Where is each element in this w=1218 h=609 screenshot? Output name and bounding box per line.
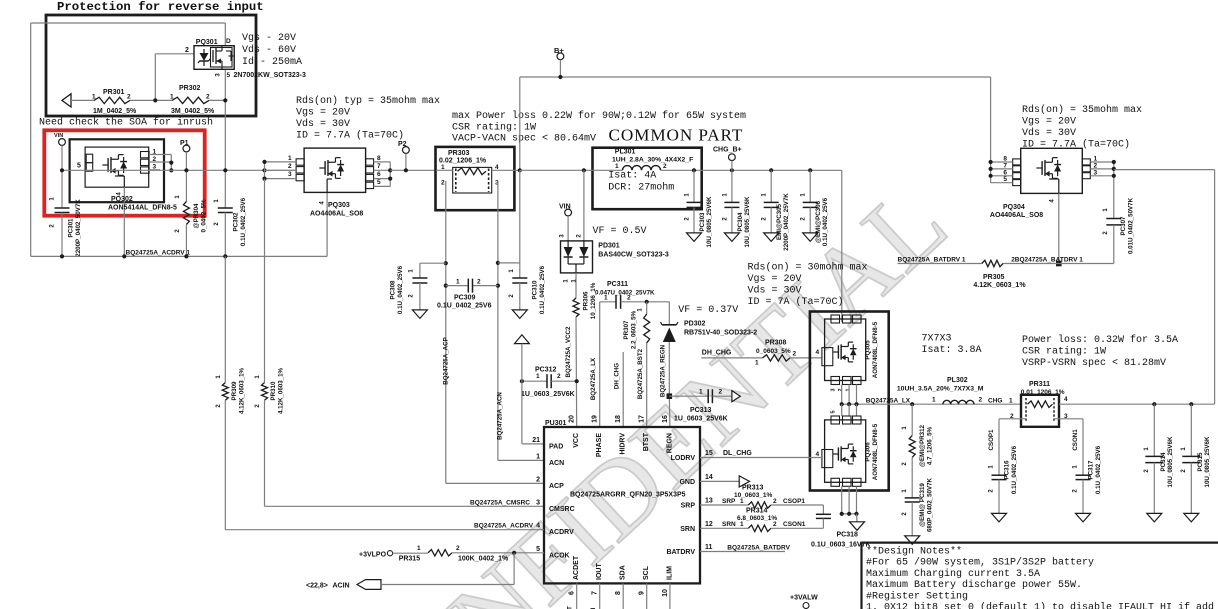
label VIN [559, 204, 571, 211]
svg-text:BQ24725A_BST2: BQ24725A_BST2 [637, 348, 644, 399]
svg-text:Vgs - 20V: Vgs - 20V [242, 33, 296, 44]
resistor PR313 [748, 502, 771, 508]
label BQ24725A_ACN [497, 392, 504, 440]
capacitor PC301 [55, 170, 70, 256]
labels PC316 [989, 445, 1019, 494]
svg-text:Id - 250mA: Id - 250mA [242, 56, 302, 68]
labels PC304 [722, 193, 751, 248]
svg-text:1. 0X12 bit8 set 0 (default 1): 1. 0X12 bit8 set 0 (default 1) to disabl… [866, 602, 1214, 609]
diode PD301 [561, 241, 593, 273]
svg-text:3: 3 [831, 388, 837, 391]
svg-text:680P_0402_50V7K: 680P_0402_50V7K [927, 477, 934, 532]
title Protection for reverse input [57, 0, 264, 14]
svg-text:0_0603_5%: 0_0603_5% [756, 348, 791, 355]
wire BST2 to pin17 [646, 343, 648, 427]
svg-text:ACIN: ACIN [333, 583, 350, 590]
svg-text:Vds = 30V: Vds = 30V [748, 285, 802, 297]
inductor box PL301 [593, 148, 702, 210]
svg-text:19: 19 [592, 415, 599, 423]
junction dots LX [840, 402, 915, 406]
svg-text:ACN: ACN [549, 460, 564, 467]
pin labels PQ305 bottom [831, 388, 852, 391]
wire PR302 leads [155, 99, 225, 101]
svg-text:4.7_1206_5%: 4.7_1206_5% [927, 426, 934, 465]
svg-text:RB751V-40_SOD323-2: RB751V-40_SOD323-2 [684, 330, 757, 337]
label PR301 [92, 89, 137, 115]
svg-text:1: 1 [417, 545, 421, 552]
capacitor PC317 [1076, 475, 1091, 513]
junction dots main rail left [60, 168, 267, 172]
junction dots sense lines [444, 261, 500, 288]
capacitor PC307 [1106, 179, 1121, 264]
wire rail to PL301 [520, 169, 623, 171]
svg-text:PC308: PC308 [390, 280, 397, 299]
wire ACIN [381, 553, 514, 585]
junction dots output caps [692, 168, 812, 172]
label +3VLPO [359, 552, 387, 559]
label CHG_B+ [713, 147, 742, 154]
wire SRP stub [700, 504, 748, 506]
svg-text:1UH_2.8A_30%_4X4X2_F: 1UH_2.8A_30%_4X4X2_F [612, 157, 693, 164]
svg-text:3: 3 [153, 164, 157, 171]
label PQ301 [196, 39, 218, 46]
svg-text:EMI@PC305: EMI@PC305 [776, 203, 783, 240]
current sense box PR311 [1021, 395, 1059, 427]
svg-text:4: 4 [536, 523, 540, 530]
svg-text:PD301: PD301 [598, 243, 620, 250]
text CSR block [452, 110, 746, 145]
label P1 [180, 140, 189, 147]
wire LX rail [842, 403, 1021, 405]
wire PQ301 drain stub [224, 23, 226, 46]
wire down to PQ305 drain [841, 170, 843, 322]
junction dots CHG rail [1152, 402, 1193, 406]
junction dot ACOK [512, 551, 516, 555]
svg-text:PQ303: PQ303 [328, 202, 350, 209]
svg-text:Vgs = 20V: Vgs = 20V [748, 274, 802, 285]
wire PQ304 pin4 down [1058, 193, 1060, 263]
wire PC309 leads [446, 285, 498, 287]
svg-text:Vgs = 20V: Vgs = 20V [1022, 117, 1076, 128]
svg-text:PR313: PR313 [742, 485, 764, 492]
svg-text:Isat: 4A: Isat: 4A [608, 171, 656, 182]
svg-text:11: 11 [705, 544, 713, 551]
wire PC311 to PD302 corner [647, 302, 670, 325]
wire PR308 to PQ305 gate [790, 357, 822, 359]
svg-text:5: 5 [227, 72, 231, 79]
labels PC301 [50, 197, 83, 257]
svg-text:2: 2 [288, 163, 292, 170]
svg-text:BQ24725A_ACDRV 1: BQ24725A_ACDRV 1 [126, 249, 191, 256]
svg-text:ACDRV: ACDRV [549, 529, 574, 536]
capacitor PC303 [687, 170, 702, 233]
svg-text:BAS40CW_SOT323-3: BAS40CW_SOT323-3 [598, 252, 669, 259]
svg-text:ILIM: ILIM [666, 566, 673, 580]
wire ACDRV to pin4 [225, 400, 544, 529]
pin labels PL301 [615, 163, 667, 170]
svg-text:2: 2 [441, 180, 445, 187]
label BQ24725A_BATDRV pin11 [727, 545, 790, 552]
wire PQ304 to right edge [1114, 169, 1215, 171]
net arrow left [62, 94, 71, 107]
svg-text:4.12K_0603_1%: 4.12K_0603_1% [278, 367, 285, 414]
svg-text:2: 2 [663, 163, 667, 170]
net arrow PC313 [732, 391, 740, 402]
svg-text:0.01U_0402_50V7K: 0.01U_0402_50V7K [1128, 197, 1135, 254]
testpoint P2 [398, 141, 409, 172]
pin labels PU301 top [569, 415, 674, 457]
svg-text:0.1U_0402_25V6: 0.1U_0402_25V6 [1011, 445, 1018, 494]
wire PQ304 right pins [1090, 162, 1114, 179]
svg-text:8: 8 [377, 155, 381, 162]
capacitor PC305 [764, 170, 779, 233]
resistor PR312 [909, 404, 915, 457]
svg-text:VSRP-VSRN spec < 81.28mV: VSRP-VSRN spec < 81.28mV [1022, 358, 1166, 369]
svg-text:10U_0805_25V6K: 10U_0805_25V6K [706, 196, 713, 247]
diode PD302 [661, 322, 679, 342]
svg-text:Rds(on) = 35mohm max: Rds(on) = 35mohm max [1022, 104, 1142, 116]
text design notes [866, 546, 1214, 609]
labels PC309 [437, 279, 492, 310]
svg-text:PR309: PR309 [231, 381, 238, 400]
svg-text:DH_CHG: DH_CHG [614, 363, 621, 389]
labels SRP [722, 498, 805, 505]
wire main input rail [62, 169, 296, 171]
labels PR312 [902, 424, 934, 467]
label CSOP1 right [988, 429, 995, 451]
svg-text:5: 5 [536, 546, 540, 553]
net arrow B+ up [515, 335, 530, 344]
svg-text:REGN: REGN [666, 433, 673, 453]
svg-text:1M_0402_5%: 1M_0402_5% [93, 108, 137, 115]
inductor PL301 [623, 166, 661, 171]
svg-text:1: 1 [740, 521, 744, 528]
svg-text:PR311: PR311 [1029, 381, 1050, 388]
svg-text:BATDRV: BATDRV [666, 549, 695, 556]
svg-text:VF = 0.37V: VF = 0.37V [678, 305, 738, 316]
svg-text:1U_0603_25V6K: 1U_0603_25V6K [521, 391, 575, 398]
labels PR304 [175, 195, 208, 233]
svg-text:10U_0805_25V6K: 10U_0805_25V6K [744, 196, 751, 247]
transistor PQ304 [1013, 148, 1091, 193]
svg-text:PL302: PL302 [947, 377, 968, 384]
capacitor PC302 [218, 208, 233, 213]
svg-text:7: 7 [592, 591, 599, 595]
svg-text:COMMON PART: COMMON PART [609, 126, 744, 145]
svg-text:18: 18 [615, 415, 622, 423]
svg-text:PQ305: PQ305 [865, 340, 872, 360]
pin label PQ306 5 [831, 410, 837, 413]
junction dot B+ rail [518, 168, 522, 172]
svg-text:PC307: PC307 [1120, 216, 1127, 235]
svg-text:PHASE: PHASE [596, 433, 603, 457]
svg-text:10_1206_1%: 10_1206_1% [590, 282, 597, 319]
labels PC308 [390, 265, 415, 314]
resistor PR305 [982, 260, 1003, 266]
svg-text:BQ24725A_LX: BQ24725A_LX [590, 357, 597, 400]
svg-text:PC313: PC313 [690, 407, 712, 414]
ground PC303 [687, 233, 702, 242]
svg-text:0.1U_0402_25V6: 0.1U_0402_25V6 [437, 303, 492, 310]
svg-text:17: 17 [639, 415, 646, 423]
testpoint VIN [565, 209, 572, 241]
transistor PQ306 [822, 416, 866, 486]
svg-text:SCL: SCL [643, 565, 650, 580]
svg-text:IOUT: IOUT [596, 563, 603, 580]
label PC311 [595, 281, 655, 297]
svg-text:AO4406AL_SO8: AO4406AL_SO8 [990, 212, 1043, 219]
capacitor PC316 [992, 475, 1007, 513]
junction dots ACDRV rail [60, 254, 228, 258]
pin labels PQ302 [77, 149, 157, 196]
ground PC314 [1147, 513, 1162, 522]
svg-text:20: 20 [569, 415, 576, 423]
pin labels PU301 left [532, 437, 574, 559]
svg-text:#Register Setting: #Register Setting [866, 590, 968, 602]
transistor PQ303 [296, 148, 374, 192]
svg-text:AON7408L_DFN8-5: AON7408L_DFN8-5 [872, 321, 879, 378]
svg-text:BQ24725A_BATDRV 1: BQ24725A_BATDRV 1 [898, 257, 966, 264]
ground PC310 [512, 310, 527, 319]
svg-text:0.1U_0402_25V6: 0.1U_0402_25V6 [397, 265, 404, 314]
wire SRN stub [700, 527, 748, 529]
wire CMSRC down lower [265, 400, 545, 506]
svg-text:3M_0402_5%: 3M_0402_5% [171, 108, 215, 115]
svg-text:2200P_0402_50V7K: 2200P_0402_50V7K [75, 199, 82, 257]
labels PR313 [734, 485, 773, 500]
ground PC319 [905, 536, 920, 545]
svg-text:0.1U_0402_25V6: 0.1U_0402_25V6 [240, 197, 247, 246]
svg-text:3: 3 [1094, 169, 1098, 176]
svg-text:PC317: PC317 [1088, 460, 1095, 479]
wire LX vertical [599, 302, 601, 427]
net connector ACIN [357, 580, 381, 590]
svg-text:2: 2 [536, 476, 540, 483]
svg-text:Vgs = 20V: Vgs = 20V [296, 108, 350, 119]
pin labels PU301 right [666, 450, 712, 556]
svg-text:Power loss: 0.32W for 3.5A: Power loss: 0.32W for 3.5A [1022, 334, 1178, 346]
svg-text:PR303: PR303 [448, 150, 470, 157]
resistor PR311 body [1026, 398, 1054, 421]
transistor PQ301 [194, 46, 234, 70]
svg-text:15: 15 [705, 450, 713, 457]
pin labels PC313 [699, 389, 723, 396]
wire DH_CHG stub [622, 352, 624, 427]
svg-text:PL301: PL301 [615, 149, 636, 156]
junction dot PD301 tap [582, 168, 586, 172]
svg-text:2.2_0603_5%: 2.2_0603_5% [631, 310, 638, 349]
labels PR306 [583, 282, 598, 319]
ground PC304 [724, 233, 739, 242]
labels PC305 [762, 193, 791, 251]
label CSON1 right [1072, 429, 1079, 451]
svg-text:1U_0603_25V6K: 1U_0603_25V6K [674, 416, 728, 423]
ground PC306 [803, 233, 818, 242]
svg-text:PC303: PC303 [699, 212, 706, 231]
svg-text:1: 1 [755, 360, 759, 367]
svg-text:PR302: PR302 [179, 85, 201, 92]
svg-text:BTST: BTST [643, 432, 650, 451]
svg-text:2: 2 [979, 397, 983, 404]
svg-text:1: 1 [932, 397, 936, 404]
pin labels PC311 [604, 295, 631, 302]
protection box [46, 15, 256, 116]
svg-text:PC309: PC309 [454, 295, 476, 302]
wire PR306 to VCC pin [575, 317, 578, 427]
svg-text:4: 4 [816, 349, 820, 356]
svg-text:CMSRC: CMSRC [549, 506, 575, 513]
labels PC310 [509, 265, 546, 314]
text PQ304 limits [1022, 104, 1142, 151]
svg-text:1: 1 [170, 94, 174, 101]
resistor PR306 [573, 298, 579, 317]
text PQ305 limits [748, 262, 868, 309]
capacitor PC308 [412, 278, 427, 283]
wire DL_CHG [700, 457, 822, 459]
transistor PQ305 [822, 315, 866, 385]
wire PL301 to caps rail [661, 169, 842, 171]
labels PR305 [973, 274, 1026, 289]
label PQ304 [990, 204, 1043, 219]
svg-text:+3VLPO: +3VLPO [359, 552, 387, 559]
svg-text:BQ24725A_LX: BQ24725A_LX [866, 397, 911, 404]
resistor PR301 [94, 97, 130, 103]
labels PC318 [811, 532, 871, 549]
svg-text:2N7002KW_SOT323-3: 2N7002KW_SOT323-3 [234, 72, 306, 79]
label +3VALW [790, 595, 818, 602]
svg-text:1: 1 [1009, 398, 1013, 405]
wire PR301 leads [71, 99, 155, 101]
label BQ24725A_VCC2 [565, 326, 572, 377]
svg-text:CSOP1: CSOP1 [988, 429, 995, 451]
svg-text:Vds = 30V: Vds = 30V [1022, 127, 1076, 139]
svg-text:SRN: SRN [680, 526, 695, 533]
junction dots PC312 [520, 379, 579, 383]
current sense box PR303 [436, 147, 515, 210]
svg-text:14: 14 [705, 474, 713, 481]
svg-text:CSR rating: 1W: CSR rating: 1W [452, 122, 536, 134]
resistor PR302 [172, 97, 209, 103]
wire ACDRV down upper [224, 256, 226, 382]
labels PC302 [214, 197, 247, 246]
labels PR315 [399, 545, 509, 563]
resistor PR310 [262, 383, 268, 401]
svg-text:SRP: SRP [722, 498, 736, 505]
svg-text:4.12K_0603_1%: 4.12K_0603_1% [973, 282, 1026, 289]
svg-text:PR306: PR306 [583, 291, 590, 310]
label DL_CHG [723, 450, 752, 457]
svg-text:BQ24725A_BATDRV: BQ24725A_BATDRV [727, 545, 790, 552]
labels PR314 [737, 508, 777, 523]
svg-text:PR305: PR305 [983, 274, 1005, 281]
svg-text:10: 10 [662, 589, 669, 597]
junction dots PQ304 right [1112, 160, 1116, 178]
svg-text:3: 3 [288, 171, 292, 178]
junction square PC313 [667, 393, 673, 399]
net arrow GND [739, 476, 749, 487]
svg-text:CSR rating: 1W: CSR rating: 1W [1022, 346, 1106, 358]
red highlight box [44, 130, 204, 215]
junction dots PQ304 left [989, 160, 993, 178]
svg-text:10U_0805_25V6K: 10U_0805_25V6K [1167, 436, 1174, 487]
svg-text:1: 1 [604, 295, 608, 302]
wire ACN sense line [498, 181, 544, 460]
wire SRP to CSOP1 [771, 504, 824, 506]
svg-text:6: 6 [569, 591, 576, 595]
testpoint +3VLPO [387, 551, 392, 556]
ground PC308 [412, 310, 427, 319]
wire PQ306 sources to gnd bus [842, 486, 857, 514]
svg-text:<22,8>: <22,8> [306, 583, 328, 590]
wire CSON1 from PR311 [1054, 419, 1083, 475]
text battery CSR block [1022, 334, 1178, 369]
svg-text:2: 2 [773, 498, 777, 505]
svg-text:ID = 7A (Ta=70C): ID = 7A (Ta=70C) [748, 296, 844, 308]
svg-text:PQ306: PQ306 [865, 442, 872, 462]
label PD301 [598, 243, 669, 259]
label BQ24725ARGRR_QFN20_3P5X3P5 [570, 492, 686, 499]
svg-text:10UH_3.5A_20%_7X7X3_M: 10UH_3.5A_20%_7X7X3_M [897, 386, 984, 393]
svg-text:ACP: ACP [549, 483, 564, 490]
resistor PR309 [222, 383, 228, 401]
wire PC302 top [224, 170, 226, 208]
label BQ24725A_ACDRV pin4 [474, 523, 534, 530]
label B+ [554, 46, 564, 55]
junction dots PQ306 gnd [840, 512, 859, 516]
labels PC314 [1144, 436, 1174, 487]
note Need check the SOA for inrush [39, 117, 213, 129]
svg-text:Rds(on) = 30mohm max: Rds(on) = 30mohm max [748, 262, 868, 274]
svg-text:2: 2 [719, 389, 723, 396]
labels PC307 [1103, 197, 1135, 254]
svg-text:0.1U_0402_25V6: 0.1U_0402_25V6 [1095, 445, 1102, 494]
wire DH_CHG to PR308 [701, 357, 762, 359]
wire ACP sense line [446, 181, 544, 483]
watermark CONFIDENTIAL [320, 163, 968, 609]
labels PC303 [685, 193, 714, 248]
svg-text:BQ24725A_ACP: BQ24725A_ACP [443, 337, 450, 384]
wire PR304 bottom [185, 225, 187, 257]
svg-text:2: 2 [185, 47, 189, 54]
svg-text:@PR304: @PR304 [193, 203, 200, 229]
svg-text:PR308: PR308 [765, 340, 787, 347]
label PD302 [684, 321, 757, 337]
wire rail PQ303 to PR303 [390, 169, 436, 171]
capacitor PC315 [1182, 404, 1200, 513]
svg-text:4: 4 [1064, 396, 1068, 403]
wire PQ302 pins123 to rail [149, 155, 171, 171]
capacitor PC318 [816, 505, 831, 528]
wire rail through PR303 [436, 169, 520, 171]
svg-text:DCR: 27mohm: DCR: 27mohm [608, 182, 674, 194]
label CHG [988, 398, 1013, 405]
label PR311 [1021, 381, 1065, 396]
svg-text:BQ24725A_ACDRV: BQ24725A_ACDRV [474, 523, 534, 530]
wire PD301 to PR306 [575, 273, 577, 298]
svg-text:Need check the SOA for inrush: Need check the SOA for inrush [39, 117, 213, 129]
svg-text:+3VALW: +3VALW [790, 595, 818, 602]
svg-text:Isat: 3.8A: Isat: 3.8A [922, 345, 982, 356]
svg-text:PC314: PC314 [1160, 452, 1167, 471]
wire BQ24725A_ACDRV rail [31, 192, 327, 256]
wire PR304 top [185, 170, 187, 201]
svg-text:Protection for reverse input: Protection for reverse input [57, 0, 264, 14]
capacitor PC313 [669, 389, 732, 403]
pin labels PR311 [1010, 396, 1068, 420]
svg-text:D: D [226, 38, 231, 45]
notes box [862, 543, 1218, 609]
wire BATDRV rail [898, 263, 1114, 265]
